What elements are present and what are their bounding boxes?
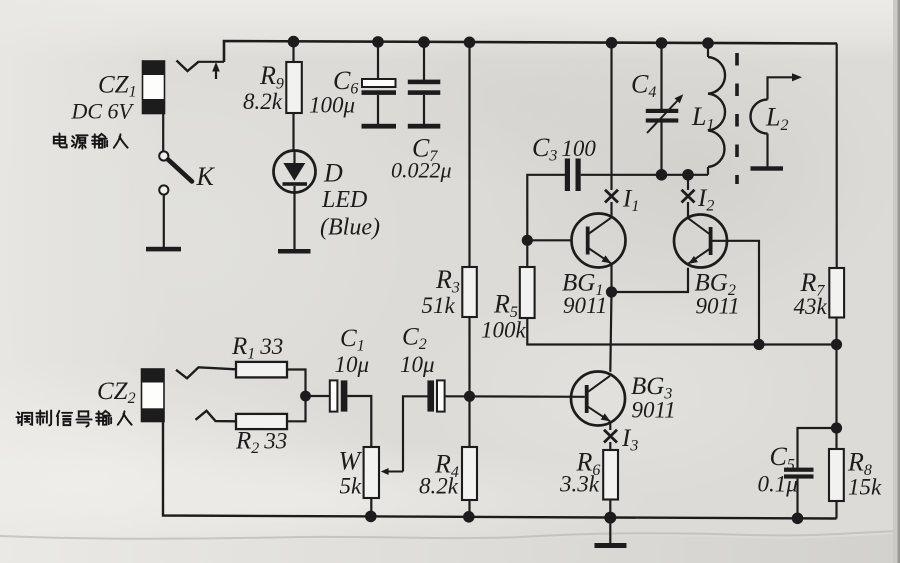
wire LED to ground xyxy=(293,193,295,250)
wire rail to I1 xyxy=(610,43,612,191)
resistor R7 xyxy=(829,268,844,318)
svg-text:LED: LED xyxy=(321,187,367,213)
node W-rail xyxy=(365,511,377,523)
svg-text:K: K xyxy=(196,162,216,191)
wire rail to C4 xyxy=(660,43,662,109)
resistor R6 xyxy=(603,450,618,500)
test point I2 xyxy=(682,190,695,203)
inductor L2 xyxy=(751,100,768,167)
capacitor C1 xyxy=(330,380,348,411)
label zhi (system) xyxy=(36,410,51,425)
node C5-rail xyxy=(792,513,804,525)
svg-text:10μ: 10μ xyxy=(335,352,370,377)
wire BG3 base xyxy=(445,395,585,398)
LED D xyxy=(274,151,316,193)
capacitor C5 xyxy=(784,468,814,519)
test point I1 xyxy=(605,190,618,203)
ground under L2 xyxy=(751,166,784,170)
label xin (signal) xyxy=(57,411,72,425)
test point I3 xyxy=(604,430,617,443)
wire top supply rail xyxy=(224,41,837,62)
capacitor C2 xyxy=(427,380,444,411)
node C5-R8 xyxy=(831,422,842,433)
wire I2 to BG2 collector xyxy=(687,202,689,218)
svg-text:9011: 9011 xyxy=(632,398,676,423)
wire R5 to bias line xyxy=(527,318,836,345)
capacitor C6 xyxy=(362,79,397,124)
wire C3 to tank bottom xyxy=(581,174,708,176)
resistor R5 xyxy=(520,267,535,318)
node bias-R7 xyxy=(831,339,842,350)
wire I1 to BG1 collector xyxy=(610,202,612,218)
svg-text:(Blue): (Blue) xyxy=(320,215,380,241)
label yuan (source) xyxy=(72,135,88,148)
node rail-R9 xyxy=(288,36,300,48)
transistor BG1 xyxy=(572,214,626,268)
svg-text:0.1μ: 0.1μ xyxy=(758,472,798,497)
wire tank to I2 xyxy=(687,175,689,190)
node tank-I2 xyxy=(682,169,694,181)
ground under switch xyxy=(146,247,181,252)
capacitor C7 xyxy=(408,80,441,124)
svg-text:43k: 43k xyxy=(794,294,828,319)
label dian (power) xyxy=(54,133,67,147)
node rail-I1 xyxy=(606,37,618,49)
wire R2 to mix node xyxy=(287,396,306,421)
node rail-C6 xyxy=(372,36,384,48)
connector CZ1 body xyxy=(143,61,165,114)
node BG1 emitter xyxy=(606,286,617,297)
wire jack step to rail xyxy=(199,61,224,63)
wire BG1 emitter down xyxy=(610,264,612,293)
ground at bottom rail xyxy=(595,518,627,548)
transistor BG2 xyxy=(674,215,727,268)
wire rail right corner to R7 xyxy=(836,44,838,269)
wire C5 branch xyxy=(798,428,837,468)
resistor R8 xyxy=(829,449,844,501)
wire BG3 emitter to I3 xyxy=(609,421,611,430)
svg-text:9011: 9011 xyxy=(563,293,607,318)
wire switch to ground xyxy=(163,195,165,248)
wire R6 to bottom rail xyxy=(609,500,611,518)
resistor R3 xyxy=(462,267,477,317)
svg-text:D: D xyxy=(323,159,343,188)
wire rail to C6 xyxy=(377,42,379,79)
label shu (transmit) xyxy=(92,134,107,148)
wire C1 to W xyxy=(347,396,371,447)
svg-text:100k: 100k xyxy=(481,318,527,343)
node rail-R3 xyxy=(464,37,476,49)
wire W wiper to C2 xyxy=(403,396,428,471)
switch K xyxy=(159,151,192,194)
wire bias line to R8 xyxy=(835,345,837,450)
connector CZ2 body xyxy=(142,369,165,422)
wire rail to C7 xyxy=(423,42,425,80)
capacitor C3 xyxy=(565,159,581,192)
wire CZ1 to switch xyxy=(162,114,164,152)
wire BG1 emitter to BG3 collector xyxy=(610,292,611,372)
wire rail to R9 xyxy=(292,41,294,62)
resistor R2 xyxy=(236,414,287,429)
connector CZ1 insertion arrow xyxy=(212,62,220,79)
wire R9 to LED xyxy=(292,113,294,151)
svg-text:8.2k: 8.2k xyxy=(419,474,459,499)
label ru2 (input) xyxy=(118,411,132,424)
wire I3 to R6 xyxy=(609,442,611,450)
svg-text:C3100: C3100 xyxy=(532,133,596,165)
wire bottom rail xyxy=(163,422,837,519)
svg-text:3.3k: 3.3k xyxy=(559,472,600,497)
Chinese caption glyphs xyxy=(16,133,131,426)
resistor R4 xyxy=(462,447,477,500)
coupling dashed line xyxy=(735,53,739,184)
node R1R2 mix xyxy=(300,391,311,402)
wire R8 to bottom rail xyxy=(835,501,837,519)
svg-text:51k: 51k xyxy=(422,293,456,318)
wire R3 to R4 junction xyxy=(468,317,470,447)
potentiometer W xyxy=(364,447,403,498)
svg-text:15k: 15k xyxy=(848,475,882,500)
wire BG1 base xyxy=(527,239,571,241)
ground under LED xyxy=(278,249,311,254)
wire center vertical rail to R3 xyxy=(468,42,470,267)
wire R7 to bias line xyxy=(835,318,837,345)
connector CZ1 jack contact xyxy=(177,61,200,72)
svg-text:100μ: 100μ xyxy=(309,93,355,118)
node rail-C7 xyxy=(418,36,430,48)
svg-text:0.022μ: 0.022μ xyxy=(391,158,452,183)
label hao (number) xyxy=(76,411,91,426)
node R4-rail xyxy=(463,511,475,523)
svg-text:8.2k: 8.2k xyxy=(243,89,283,114)
resistor R1 xyxy=(236,362,287,378)
bottom crease xyxy=(0,531,900,539)
connector CZ2 lower contact xyxy=(196,411,237,422)
node BG1 base xyxy=(522,235,533,246)
svg-text:10μ: 10μ xyxy=(400,352,435,377)
antenna arrow L2 xyxy=(768,73,803,99)
wire BG2 base to bias line xyxy=(713,241,760,345)
wire mix node to C1 xyxy=(306,395,331,397)
ground under C6 xyxy=(362,124,397,129)
svg-text:5k: 5k xyxy=(340,474,363,499)
wire R1 to mix node xyxy=(287,370,306,392)
node rail-L1 xyxy=(702,37,714,49)
node R6-rail xyxy=(604,512,616,524)
inductor L1 xyxy=(708,43,725,175)
resistor R9 xyxy=(286,62,302,113)
node C2-R4 xyxy=(464,391,475,402)
wire W to bottom rail xyxy=(370,498,372,517)
label ru (input) xyxy=(114,134,128,147)
wire C3 branch corner xyxy=(527,175,565,267)
right scan edge xyxy=(893,0,900,563)
wire emitter coupling line xyxy=(612,268,689,292)
capacitor C4 variable xyxy=(646,94,684,175)
ground under C7 xyxy=(408,124,441,129)
label shu2 (transmit) xyxy=(96,411,111,425)
label tiao (modulate) xyxy=(16,412,32,425)
node rail-C4 xyxy=(656,37,668,49)
connector CZ2 upper contact xyxy=(176,367,236,378)
svg-text:9011: 9011 xyxy=(696,294,740,319)
node bias-BG2 xyxy=(753,339,764,350)
transistor BG3 xyxy=(571,372,625,426)
node tank-C4 xyxy=(656,169,668,181)
svg-text:W: W xyxy=(339,447,363,476)
wire R4 to bottom rail xyxy=(468,500,470,517)
svg-text:DC 6V: DC 6V xyxy=(71,99,135,124)
